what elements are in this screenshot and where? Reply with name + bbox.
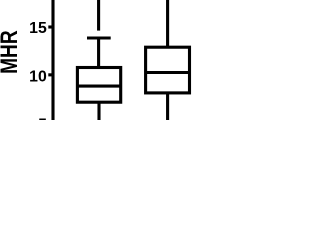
svg-text:10: 10 bbox=[29, 68, 47, 85]
svg-text:MHR: MHR bbox=[0, 30, 23, 74]
svg-text:5: 5 bbox=[38, 116, 47, 120]
svg-text:15: 15 bbox=[29, 20, 47, 37]
